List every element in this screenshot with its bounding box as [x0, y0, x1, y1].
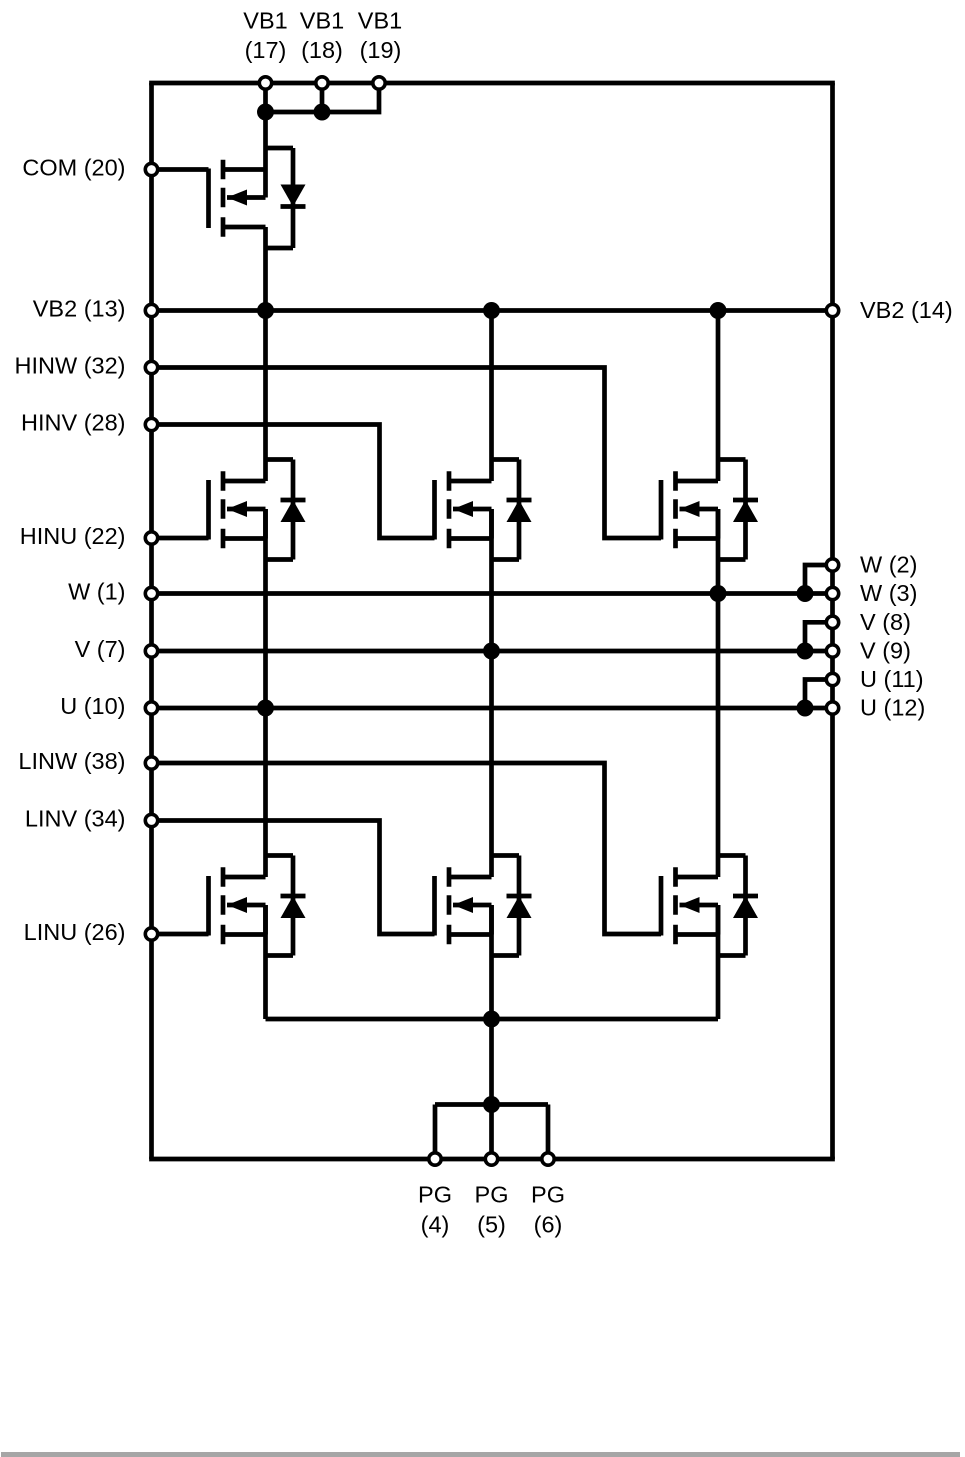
body diode of Q7 (COM bootstrap FET)	[266, 148, 306, 248]
svg-text:VB1: VB1	[300, 8, 344, 34]
wire VB2 to Q2 drain	[489, 311, 494, 482]
svg-text:PG: PG	[475, 1181, 509, 1207]
junction V rail at pins 8-9	[797, 643, 814, 660]
svg-text:HINV (28): HINV (28)	[21, 410, 125, 436]
junction VB2 at column V	[483, 302, 500, 319]
footer rule	[1, 1452, 960, 1457]
junction V rail at column V	[483, 643, 500, 660]
pin PG (5)	[485, 1153, 497, 1165]
pin VB1 (19)	[373, 77, 385, 89]
wire COM to gate of Q7	[152, 167, 209, 172]
transistor Q3 (high side W)	[661, 471, 718, 548]
junction U rail at column U	[257, 700, 274, 717]
wire low-side source bus	[266, 1017, 719, 1022]
junction source bus at column V	[483, 1011, 500, 1028]
pin PG (6)	[542, 1153, 554, 1165]
wire U pin 11 hook	[805, 680, 833, 709]
wire PG pin 5 drop	[489, 1105, 494, 1160]
transistor Q6 (low side W)	[661, 867, 718, 944]
pin COM (20)	[145, 163, 157, 175]
wire source bus to PG header	[489, 1019, 494, 1105]
wire U rail to Q4 drain	[263, 708, 268, 877]
pin V (9)	[826, 645, 838, 657]
top border wire	[149, 81, 835, 86]
junction VB2 at column U	[257, 302, 274, 319]
wire W rail	[152, 591, 833, 596]
pin W (2)	[826, 559, 838, 571]
wire Q4 source to PG bus	[263, 905, 268, 1019]
svg-text:VB1: VB1	[243, 8, 287, 34]
svg-text:(5): (5)	[477, 1212, 506, 1238]
wire V pin 8 hook	[805, 622, 833, 651]
pin HINV (28)	[145, 418, 157, 430]
svg-text:W (3): W (3)	[860, 580, 917, 606]
pin LINU (26)	[145, 928, 157, 940]
body diode of Q3 (high side W)	[718, 460, 758, 560]
svg-text:LINU (26): LINU (26)	[24, 919, 126, 945]
wire Q1 source to U rail	[263, 509, 268, 708]
svg-text:LINV (34): LINV (34)	[25, 806, 126, 832]
wire VB1 pin 18 drop	[320, 83, 325, 112]
svg-text:U (10): U (10)	[60, 693, 125, 719]
wire HINW to gate of Q3	[152, 368, 662, 539]
junction PG header	[483, 1096, 500, 1113]
transistor Q1 (high side U)	[209, 471, 266, 548]
wire PG pin 4 drop	[433, 1105, 438, 1160]
junction VB2 at column W	[710, 302, 727, 319]
svg-text:W (1): W (1)	[68, 579, 125, 605]
transistor Q7 (COM bootstrap FET)	[209, 160, 266, 237]
wire W rail to Q6 drain	[716, 594, 721, 878]
svg-text:(6): (6)	[534, 1212, 563, 1238]
transistor Q4 (low side U)	[209, 867, 266, 944]
junction W rail at pins 2-3	[797, 585, 814, 602]
wire LINW to gate of Q6	[152, 763, 662, 934]
wire U rail	[152, 706, 833, 711]
svg-text:V (7): V (7)	[75, 636, 126, 662]
wire Q7 source to VB2 bus	[263, 227, 268, 311]
pin HINU (22)	[145, 532, 157, 544]
junction U rail at pins 11-12	[797, 700, 814, 717]
pin U (10)	[145, 702, 157, 714]
pin VB2 (14)	[826, 304, 838, 316]
transistor Q2 (high side V)	[435, 471, 492, 548]
wire VB2 to Q3 drain	[716, 311, 721, 482]
svg-text:U (12): U (12)	[860, 695, 925, 721]
wire VB2 to Q1 drain	[263, 311, 268, 482]
svg-text:COM (20): COM (20)	[22, 155, 125, 181]
pin VB2 (13)	[145, 304, 157, 316]
bottom border wire	[149, 1157, 835, 1162]
wire LINU to gate of Q4	[152, 932, 209, 937]
wire LINV to gate of Q5	[152, 821, 435, 935]
wire PG pin 6 drop	[546, 1105, 551, 1160]
svg-text:VB2 (14): VB2 (14)	[860, 297, 953, 323]
wire VB2 bus	[152, 308, 833, 313]
wire PG header bus	[435, 1102, 548, 1107]
wire HINU to gate of Q1	[152, 536, 209, 541]
body diode of Q4 (low side U)	[266, 856, 306, 956]
pin VB1 (17)	[259, 77, 271, 89]
svg-text:VB2 (13): VB2 (13)	[33, 296, 126, 322]
wire Q6 source to PG bus	[716, 905, 721, 1019]
svg-text:(18): (18)	[301, 37, 343, 63]
svg-text:(4): (4)	[421, 1212, 450, 1238]
svg-text:V (9): V (9)	[860, 638, 911, 664]
wire VB1 bus	[266, 83, 380, 112]
junction VB1 bus at pin 17	[257, 104, 274, 121]
body diode of Q6 (low side W)	[718, 856, 758, 956]
wire V rail	[152, 649, 833, 654]
pin U (12)	[826, 702, 838, 714]
svg-text:U (11): U (11)	[860, 666, 924, 692]
wire Q5 source to PG bus	[489, 905, 494, 1019]
wire Q3 source to W rail	[716, 509, 721, 594]
pin V (7)	[145, 645, 157, 657]
wire V rail to Q5 drain	[489, 651, 494, 877]
transistor Q5 (low side V)	[435, 867, 492, 944]
svg-text:LINW (38): LINW (38)	[18, 748, 125, 774]
pin W (3)	[826, 587, 838, 599]
svg-text:HINU (22): HINU (22)	[20, 523, 126, 549]
pin LINV (34)	[145, 814, 157, 826]
svg-text:(19): (19)	[360, 37, 402, 63]
pin V (8)	[826, 616, 838, 628]
pin W (1)	[145, 587, 157, 599]
pin LINW (38)	[145, 757, 157, 769]
wire VB1 bus to Q7 drain/body	[263, 112, 268, 198]
pin U (11)	[826, 673, 838, 685]
body diode of Q1 (high side U)	[266, 460, 306, 560]
left border wire	[149, 83, 154, 1159]
svg-text:PG: PG	[531, 1181, 565, 1207]
svg-text:VB1: VB1	[358, 8, 402, 34]
pin HINW (32)	[145, 361, 157, 373]
body diode of Q2 (high side V)	[492, 460, 532, 560]
svg-text:W (2): W (2)	[860, 552, 917, 578]
svg-text:(17): (17)	[245, 37, 287, 63]
wire HINV to gate of Q2	[152, 425, 435, 539]
svg-text:PG: PG	[418, 1181, 452, 1207]
pin VB1 (18)	[316, 77, 328, 89]
svg-text:HINW (32): HINW (32)	[15, 353, 126, 379]
wire W pin 2 hook	[805, 565, 833, 594]
junction W rail at column W	[710, 585, 727, 602]
body diode of Q5 (low side V)	[492, 856, 532, 956]
wire VB1 pin 17 drop	[263, 83, 268, 112]
pin PG (4)	[429, 1153, 441, 1165]
wire Q2 source to V rail	[489, 509, 494, 651]
svg-text:V (8): V (8)	[860, 609, 911, 635]
junction VB1 bus at pin 18	[314, 104, 331, 121]
right border wire	[830, 83, 835, 1159]
